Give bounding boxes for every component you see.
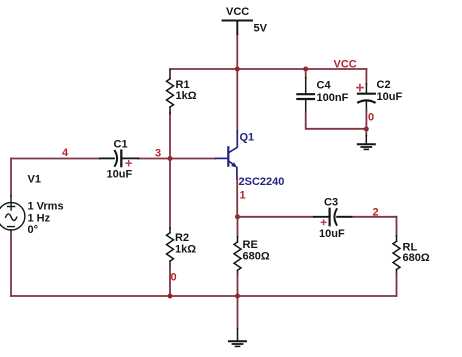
ground top right [358, 136, 375, 150]
capacitor C2 [358, 84, 375, 111]
svg-text:VCC: VCC [226, 6, 249, 18]
junction node3 [168, 156, 173, 161]
svg-text:680Ω: 680Ω [403, 252, 430, 264]
svg-text:10uF: 10uF [319, 228, 345, 240]
svg-text:Q1: Q1 [240, 132, 255, 144]
svg-text:C3: C3 [324, 197, 338, 209]
arrowhead Q1 emitter [231, 162, 237, 167]
wire collector stem [236, 69, 238, 131]
wire top rail VCC net [170, 68, 367, 70]
wire V1 top stem [10, 159, 12, 197]
wire emitter to node1 [236, 179, 238, 217]
wire bottom rail [11, 295, 397, 297]
power symbol VCC [223, 21, 253, 35]
svg-text:1kΩ: 1kΩ [176, 90, 197, 102]
ground bottom [229, 329, 246, 347]
capacitor C1 [100, 151, 139, 167]
svg-text:C1: C1 [114, 139, 128, 151]
resistor R1 [167, 70, 174, 114]
svg-text:10uF: 10uF [377, 91, 403, 103]
wire RE upper [237, 217, 239, 237]
junction VCC rail at collector [235, 67, 240, 72]
wire node3 horizontal mid [138, 158, 216, 160]
wire ground stem top right [365, 129, 367, 136]
svg-text:2SC2240: 2SC2240 [239, 176, 285, 188]
svg-text:R2: R2 [175, 232, 189, 244]
wire node1 horizontal right [337, 216, 397, 218]
svg-text:1kΩ: 1kΩ [175, 244, 196, 256]
svg-text:0°: 0° [28, 224, 39, 236]
plus mark C1 [126, 161, 131, 166]
wire ground stem bottom [237, 296, 239, 329]
wire node1 horizontal left [238, 216, 315, 218]
svg-text:10uF: 10uF [107, 169, 133, 181]
wire RE lower [237, 274, 239, 296]
wire C4 upper [305, 69, 307, 78]
resistor RE [234, 237, 241, 274]
plus mark C3 [321, 220, 325, 224]
svg-text:1: 1 [240, 190, 246, 202]
junction decoupling ground node [364, 127, 369, 132]
svg-text:RE: RE [243, 239, 258, 251]
svg-text:0: 0 [171, 272, 177, 284]
plus mark C2 [357, 85, 363, 91]
wire C4 lower [306, 114, 367, 129]
svg-text:680Ω: 680Ω [243, 251, 270, 263]
resistor R2 [167, 228, 174, 266]
capacitor C4 [297, 78, 314, 114]
svg-text:0: 0 [368, 112, 374, 124]
svg-text:3: 3 [155, 148, 161, 160]
transistor Q1 [216, 131, 238, 178]
wire C2 lower [365, 111, 367, 129]
source V1 [0, 196, 25, 237]
svg-text:1 Vrms: 1 Vrms [28, 201, 64, 213]
wire node3 horizontal left [11, 158, 100, 160]
wire RL lower [396, 274, 398, 296]
svg-text:2: 2 [373, 207, 379, 219]
junction RE bottom [235, 294, 240, 299]
svg-text:V1: V1 [28, 174, 41, 186]
capacitor C3 [314, 209, 352, 225]
junction node1 [235, 214, 240, 219]
wire R2 branch lower [169, 266, 171, 296]
svg-text:1 Hz: 1 Hz [28, 213, 51, 225]
svg-text:C2: C2 [377, 79, 391, 91]
svg-text:4: 4 [62, 147, 69, 159]
svg-text:5V: 5V [254, 23, 268, 35]
wire VCC stem red [236, 34, 238, 69]
junction C4 top [303, 67, 308, 72]
wire C2 upper [365, 69, 367, 84]
svg-text:VCC: VCC [334, 59, 357, 71]
junction R2 bottom [168, 294, 173, 299]
wire RL upper [396, 217, 398, 236]
resistor RL [393, 236, 400, 274]
svg-text:C4: C4 [317, 80, 332, 92]
wire R1 branch lower [169, 113, 171, 159]
svg-text:100nF: 100nF [317, 92, 349, 104]
wire V1 bottom stem [10, 237, 12, 297]
wire R2 branch upper [169, 159, 171, 229]
